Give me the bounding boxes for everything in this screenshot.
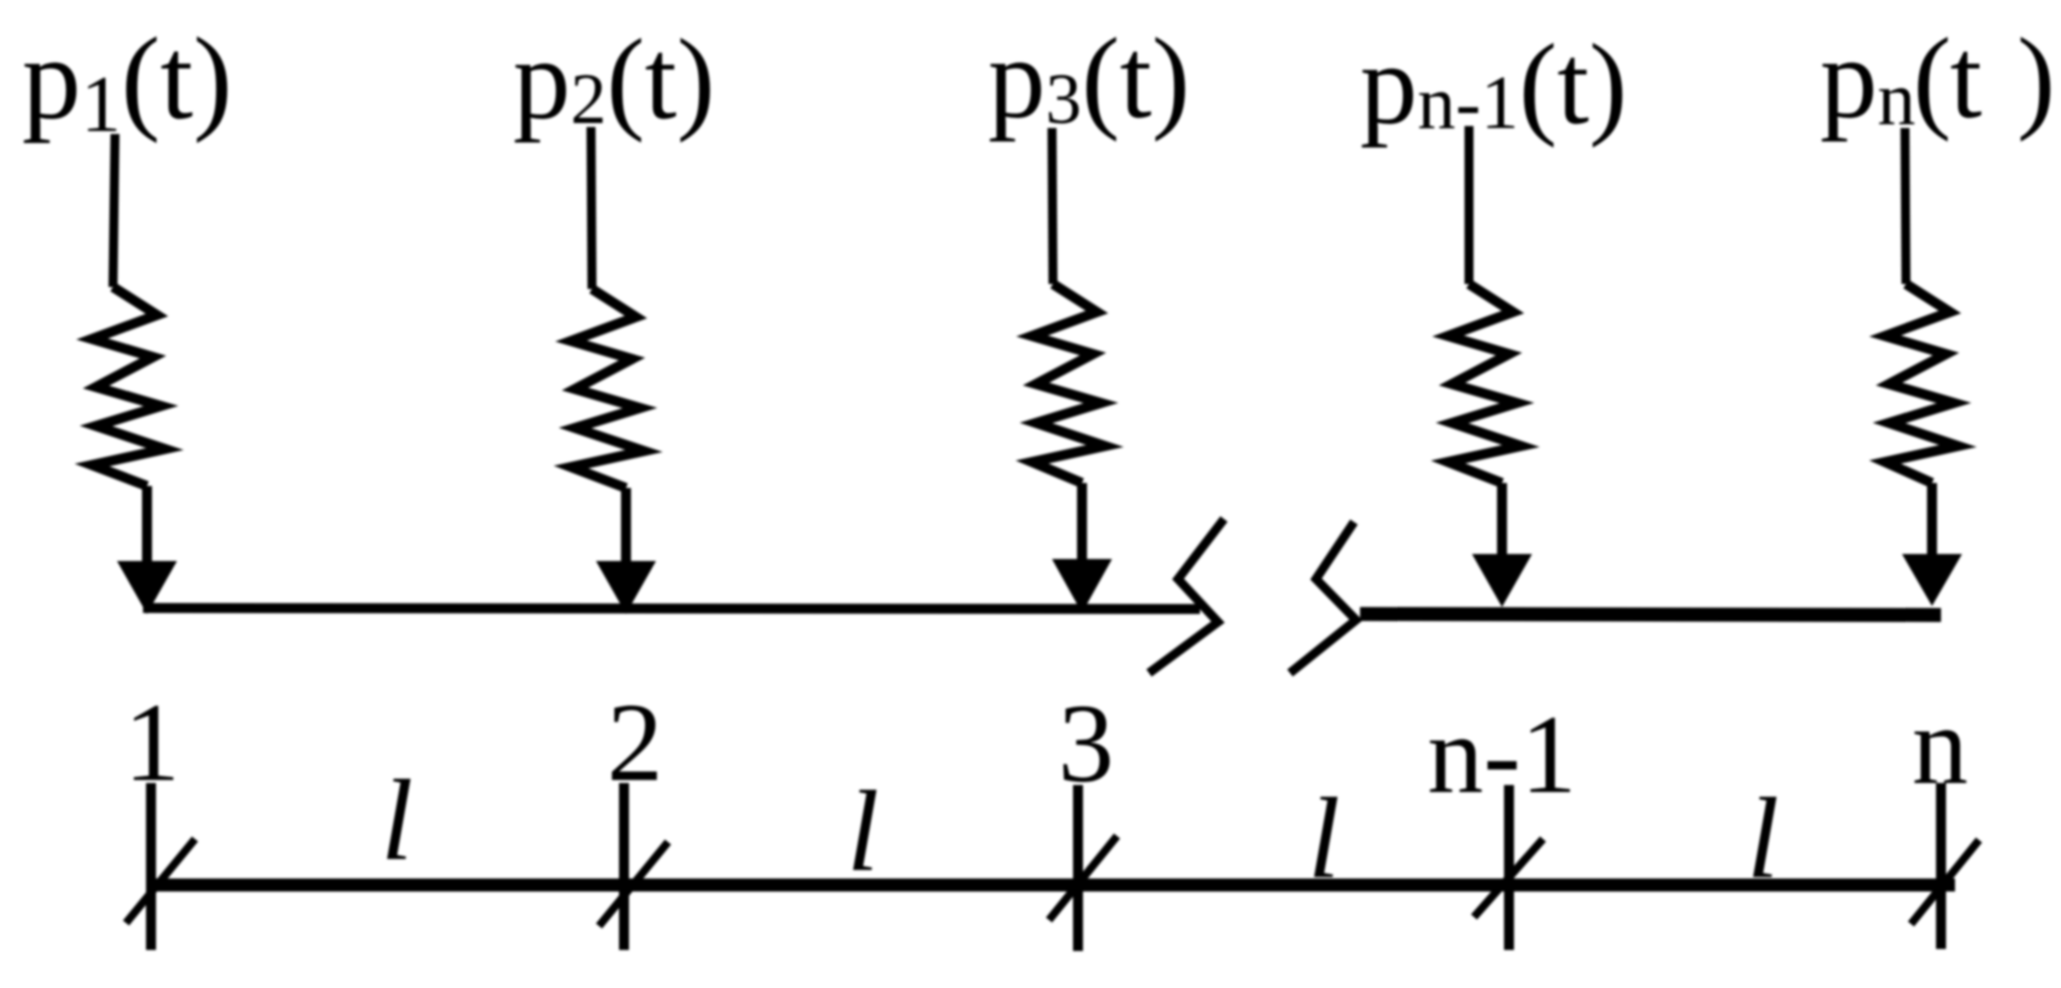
svg-text:3: 3 — [1058, 682, 1114, 806]
svg-text:l: l — [1747, 775, 1779, 903]
svg-text:pn-1(t): pn-1(t) — [1360, 21, 1627, 148]
force arrow F1 head — [117, 561, 177, 614]
wire W5 — [1905, 128, 1906, 284]
wire W1 — [113, 134, 115, 287]
svg-text:pn(t): pn(t) — [1820, 15, 2055, 142]
node 3 tick — [1073, 785, 1083, 951]
svg-text:l: l — [1308, 775, 1340, 903]
force arrow F3 head — [1052, 559, 1112, 613]
force arrow F4 shaft — [1497, 483, 1507, 562]
force arrow F2 shaft — [621, 488, 631, 568]
svg-text:l: l — [381, 757, 413, 885]
svg-text:p1(t): p1(t) — [22, 13, 232, 149]
node 1 tick — [146, 783, 156, 950]
force arrow F4 head — [1472, 554, 1532, 607]
node n-1 slash — [1474, 839, 1543, 917]
wire W2 — [591, 127, 592, 289]
spring K2 — [571, 289, 644, 488]
node 3 slash — [1049, 836, 1117, 920]
svg-text:n: n — [1912, 684, 1968, 808]
beam right segment — [1360, 614, 1941, 615]
node 2 tick — [619, 783, 629, 950]
force arrow F3 shaft — [1077, 483, 1087, 563]
node 1 slash — [126, 839, 195, 923]
node n slash — [1911, 840, 1979, 924]
svg-text:2: 2 — [607, 681, 663, 805]
svg-text:p3(t): p3(t) — [988, 15, 1190, 142]
spring K3 — [1032, 284, 1105, 483]
spring K5 — [1885, 284, 1958, 483]
axis line — [146, 879, 1955, 892]
force arrow F5 head — [1902, 554, 1962, 606]
spring K1 — [92, 287, 165, 486]
force arrow F5 shaft — [1927, 483, 1937, 561]
beam break mark left — [1149, 519, 1224, 673]
beam break mark right — [1290, 522, 1356, 673]
wire W4 — [1465, 126, 1474, 284]
beam left segment — [143, 608, 1200, 609]
force arrow F2 head — [596, 561, 656, 614]
wire W3 — [1052, 128, 1053, 284]
spring K4 — [1448, 284, 1521, 483]
svg-text:p2(t): p2(t) — [513, 16, 715, 143]
svg-text:1: 1 — [124, 681, 180, 805]
node 2 slash — [599, 842, 668, 926]
force arrow F1 shaft — [142, 486, 152, 568]
svg-text:l: l — [847, 768, 879, 896]
node n-1 tick — [1504, 785, 1514, 950]
node n tick — [1936, 783, 1946, 949]
svg-text:n-1: n-1 — [1427, 693, 1576, 817]
